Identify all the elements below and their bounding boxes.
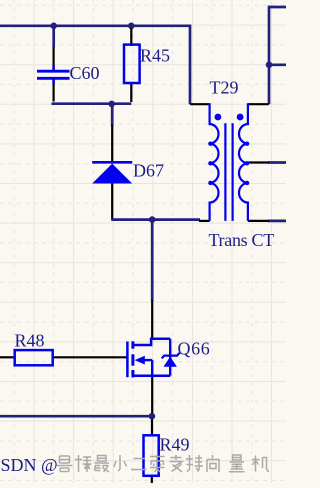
resistor R49 pin 1 (151, 416, 153, 437)
transformer T29 right winding pin top (248, 103, 269, 105)
diode D67 (92, 162, 132, 183)
diode D67 anode pin (111, 182, 113, 219)
svg-text:R45: R45 (140, 46, 170, 66)
transformer T29 right winding pin bottom (248, 220, 269, 222)
svg-text:C60: C60 (70, 63, 100, 83)
junction R45 top (128, 23, 135, 30)
label D67 (133, 161, 164, 181)
resistor R49 (144, 435, 159, 476)
wire top right horizontal (268, 6, 286, 9)
svg-text:T29: T29 (210, 78, 239, 98)
svg-text:Trans CT: Trans CT (209, 230, 275, 250)
wire top rail (0, 24, 190, 27)
svg-text:R49: R49 (160, 435, 190, 455)
junction D67 top rail (108, 101, 115, 108)
wire R48 left (0, 356, 15, 358)
junction right stub (266, 62, 273, 69)
watermark glyph cheng (150, 455, 165, 472)
wire right mid stub (269, 63, 286, 66)
transformer T29 right winding (239, 103, 248, 221)
wire lower rail below D67 (111, 218, 200, 221)
watermark glyph er (131, 459, 147, 470)
wire bottom rail to R49 (0, 415, 152, 418)
transistor Q66 channel segments (131, 341, 134, 377)
transistor Q66 source pin (151, 376, 153, 417)
transistor Q66 gate bar (126, 342, 129, 378)
transformer T29 core (225, 123, 232, 221)
transformer T29 center tap pin (248, 161, 269, 163)
wire top rail corner down to T29 primary top (189, 25, 192, 105)
wire C60-R45 bottom rail (52, 102, 132, 105)
capacitor C60 (37, 66, 70, 85)
label T29 (210, 78, 239, 98)
wire C60 top stub (52, 25, 55, 48)
wire R48 to Q66 gate (53, 356, 127, 358)
watermark glyph ji (252, 456, 269, 472)
junction lower rail Q66 (149, 216, 156, 223)
wire right vertical to T29 secondary top (268, 6, 271, 105)
svg-text:R48: R48 (15, 331, 45, 351)
svg-text:Q66: Q66 (178, 339, 211, 359)
svg-text:CSDN @: CSDN @ (0, 455, 58, 475)
wire T29 bottom right stub (268, 220, 286, 223)
transformer T29 right winding cusp dots (245, 141, 249, 185)
label Q66 (178, 339, 211, 359)
transformer T29 left polarity dot (215, 114, 222, 121)
resistor R45 pin 1 (130, 28, 132, 46)
transformer T29 left winding pin top (190, 103, 210, 105)
watermark glyph liang (229, 455, 245, 472)
transformer T29 left winding (210, 103, 219, 221)
capacitor C60 pin 2 (52, 82, 54, 102)
label R49 (160, 435, 190, 455)
junction R49 top rail (149, 413, 156, 420)
wire lower rail to Q66 drain (151, 220, 154, 301)
watermark glyph lu (57, 456, 73, 472)
watermark glyph bang (75, 455, 92, 472)
watermark glyph zui (95, 456, 110, 473)
label Trans CT (209, 230, 275, 250)
watermark glyph xiao (114, 455, 127, 471)
watermark glyph chi (186, 455, 203, 472)
svg-text:D67: D67 (133, 161, 164, 181)
transistor Q66 drain contact (134, 339, 170, 345)
transistor Q66 drain pin (151, 300, 153, 340)
wire D67 branch from bottom rail (111, 104, 114, 126)
watermark glyph zhi (170, 455, 183, 472)
label C60 (70, 63, 100, 83)
junction C60 top (50, 23, 57, 30)
watermark glyph xiang (207, 455, 219, 472)
resistor R49 pin 2 (151, 475, 153, 483)
transistor Q66 body diode (162, 339, 180, 376)
transistor Q66 body arrow (135, 356, 153, 376)
resistor R45 pin 2 (130, 82, 132, 102)
transformer T29 right polarity dot (237, 114, 244, 121)
label R45 (140, 46, 170, 66)
watermark CSDN @... (0, 455, 58, 475)
label R48 (15, 331, 45, 351)
transformer T29 left winding cusp dots (208, 141, 212, 185)
capacitor C60 pin 1 (52, 46, 54, 68)
wire T29 center tap stub (268, 161, 286, 164)
resistor R45 (124, 45, 140, 83)
resistor R48 (15, 350, 53, 365)
diode D67 cathode pin (111, 125, 113, 163)
transformer T29 left winding pin bottom (199, 220, 210, 222)
transistor Q66 source contact (134, 374, 170, 377)
